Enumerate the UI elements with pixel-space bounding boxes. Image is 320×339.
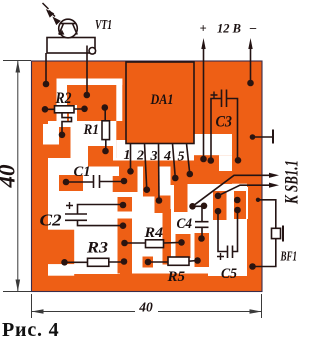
svg-text:DA1: DA1 xyxy=(150,92,174,108)
pad C2 top xyxy=(120,202,127,209)
etch notch left of finger xyxy=(43,124,61,145)
copper block F3 (pin3) xyxy=(155,196,171,214)
copper finger F4 lower xyxy=(174,185,188,212)
pad R3 right xyxy=(121,258,128,265)
wire 12V minus xyxy=(250,44,252,83)
pad C1 left xyxy=(63,179,70,186)
svg-text:Рис. 4: Рис. 4 xyxy=(2,319,59,339)
board copper base xyxy=(32,61,263,292)
wire pin4 xyxy=(173,144,176,179)
pad R4 right xyxy=(178,239,185,246)
svg-text:3: 3 xyxy=(150,149,158,164)
etch W6b right row xyxy=(219,184,247,191)
VT1 lead left xyxy=(45,53,47,84)
label +12V- xyxy=(200,21,258,36)
pad node SB1.1 upper xyxy=(189,203,196,210)
copper finger P1 (R2 bottom) xyxy=(59,127,71,158)
capacitor C5 xyxy=(217,210,238,260)
pad pin5 xyxy=(187,171,194,178)
etch corridor horizontal xyxy=(57,79,123,86)
arrowhead SB1.1 lower xyxy=(269,183,279,188)
svg-text:4: 4 xyxy=(163,149,171,164)
copper column A xyxy=(118,219,133,274)
etch white left of island xyxy=(69,105,77,129)
VT1 internal symbol xyxy=(61,23,76,25)
dimension bottom 40 xyxy=(32,294,262,318)
resistor R1 xyxy=(83,108,110,152)
pad node SB1.1 lower xyxy=(215,193,222,200)
dimension left 40 xyxy=(3,61,31,292)
capacitor C1 xyxy=(66,175,124,188)
svg-text:R1: R1 xyxy=(83,122,99,138)
pad C1 right xyxy=(121,178,128,185)
pad 12V plus xyxy=(200,156,207,163)
svg-text:C3: C3 xyxy=(216,114,233,131)
copper column C5 left xyxy=(213,191,227,220)
svg-text:VT1: VT1 xyxy=(95,18,112,33)
arrowhead SB1.1 upper xyxy=(269,173,279,178)
pad pin2 xyxy=(144,186,151,193)
wire pin3 xyxy=(158,144,161,201)
etch W2 upper middle xyxy=(48,121,116,161)
copper block P1b xyxy=(33,145,70,159)
etch W3 lower left big xyxy=(48,158,120,274)
pad R4 left xyxy=(121,240,128,247)
pad R5 right xyxy=(194,257,201,264)
etch W5 right of chip xyxy=(194,134,232,155)
pad C2 bottom xyxy=(120,222,127,229)
VT1 lead right xyxy=(86,46,88,96)
etch corridor left band xyxy=(57,79,68,130)
pad R3 left xyxy=(61,259,68,266)
copper patch R5 left xyxy=(143,257,154,268)
capacitor C2 xyxy=(65,202,123,226)
pad C5 island xyxy=(234,197,241,204)
copper island C5 right xyxy=(234,191,246,219)
pad R2 right xyxy=(81,106,88,113)
copper finger F1 (pin1 / C1 right) xyxy=(113,166,138,192)
copper pin label band xyxy=(110,161,194,167)
solder pads xyxy=(42,80,261,270)
svg-text:1: 1 xyxy=(124,148,131,163)
resistor R4 xyxy=(125,225,182,248)
capacitor C4 xyxy=(193,206,209,238)
pad R5 left xyxy=(145,259,152,266)
etched white areas xyxy=(43,79,248,277)
VT1 lens circle xyxy=(59,19,78,38)
wire pin2 xyxy=(145,144,147,190)
copper patch P2 (C1 left) xyxy=(59,175,83,191)
copper islands painted back xyxy=(33,127,246,274)
pad C4 top xyxy=(201,203,208,210)
svg-text:–: – xyxy=(249,21,257,35)
pad pin4 xyxy=(172,175,179,182)
copper finger C4 bottom xyxy=(195,233,210,267)
svg-text:R2: R2 xyxy=(55,90,72,107)
wire to SB1.1 lower xyxy=(218,185,270,196)
svg-text:C1: C1 xyxy=(74,164,91,180)
pad terminal xyxy=(250,134,256,140)
svg-text:C2: C2 xyxy=(40,211,62,230)
VT1 package xyxy=(47,38,95,54)
VT1 key tab xyxy=(89,48,96,55)
wire 12V plus down xyxy=(203,44,205,159)
copper column R4 right xyxy=(176,234,191,258)
pin labels xyxy=(124,148,185,165)
etch W4 under chip xyxy=(116,140,126,161)
pad VT1 collector xyxy=(43,81,50,88)
pad C5 right xyxy=(234,207,241,214)
pad R1 top xyxy=(102,104,109,111)
svg-text:40: 40 xyxy=(138,300,153,315)
pad C3 right xyxy=(235,157,242,164)
pad 12V minus xyxy=(247,80,254,87)
etch notch bottom-left xyxy=(48,264,74,276)
pad C3 left xyxy=(208,157,215,164)
pin wires xyxy=(131,144,190,201)
pad pin1 xyxy=(127,168,134,175)
svg-text:C5: C5 xyxy=(221,266,237,282)
IC DA1 xyxy=(126,62,194,144)
pad VT1 emitter xyxy=(84,92,91,99)
pad R2 lower xyxy=(59,132,66,139)
copper patch right of W5 lower xyxy=(219,171,232,184)
capacitor C3 xyxy=(211,90,238,161)
arrow 12V minus xyxy=(248,38,252,49)
etch W6 center bottom xyxy=(110,166,219,274)
svg-text:R4: R4 xyxy=(143,225,163,241)
svg-text:К SB1.1: К SB1.1 xyxy=(282,160,301,205)
copper block pin5 / 12V / C3-left xyxy=(188,161,220,185)
copper column B xyxy=(163,209,172,265)
phototransistor VT1 xyxy=(46,19,96,95)
svg-text:12 В: 12 В xyxy=(217,22,241,36)
svg-text:BF1: BF1 xyxy=(280,249,297,264)
resistor R2 xyxy=(45,90,84,135)
etch corridor right band xyxy=(116,79,122,122)
svg-text:5: 5 xyxy=(178,150,185,165)
svg-text:R5: R5 xyxy=(167,269,186,285)
buzzer BF1 xyxy=(253,200,284,267)
wire pin1 xyxy=(130,144,132,172)
copper bottom-left block xyxy=(33,230,74,265)
svg-text:R3: R3 xyxy=(86,240,108,257)
etch W8 bottom right around C5 xyxy=(208,219,247,276)
pad C4 bottom xyxy=(198,235,205,242)
pad C5 left xyxy=(215,208,222,215)
svg-text:+: + xyxy=(200,22,207,36)
arrow 12V plus xyxy=(201,38,205,49)
copper column A top patch (C2 top pad) xyxy=(118,197,133,212)
copper finger F2 (pin2) xyxy=(143,166,159,197)
terminal T right xyxy=(253,130,274,144)
wire to SB1.1 upper xyxy=(193,175,271,206)
pad BF1 top xyxy=(256,198,260,202)
pad R1 bottom xyxy=(102,148,109,155)
pad R2 left xyxy=(42,106,49,113)
copper patch P3 (R1 bottom) xyxy=(88,146,113,167)
VT1 light arrows xyxy=(43,3,60,24)
resistor R5 xyxy=(148,257,197,285)
pad pin3 xyxy=(156,197,163,204)
svg-text:2: 2 xyxy=(136,149,144,164)
svg-text:C4: C4 xyxy=(177,216,193,232)
etch slot between C5 columns xyxy=(227,191,233,220)
wire pin5 xyxy=(187,144,190,175)
resistor R3 xyxy=(65,240,125,267)
svg-text:40: 40 xyxy=(0,164,20,189)
pad BF1 bottom xyxy=(249,263,256,270)
copper finger F4 (pin4) xyxy=(171,166,188,185)
etch W7 right rail notch xyxy=(232,187,248,219)
